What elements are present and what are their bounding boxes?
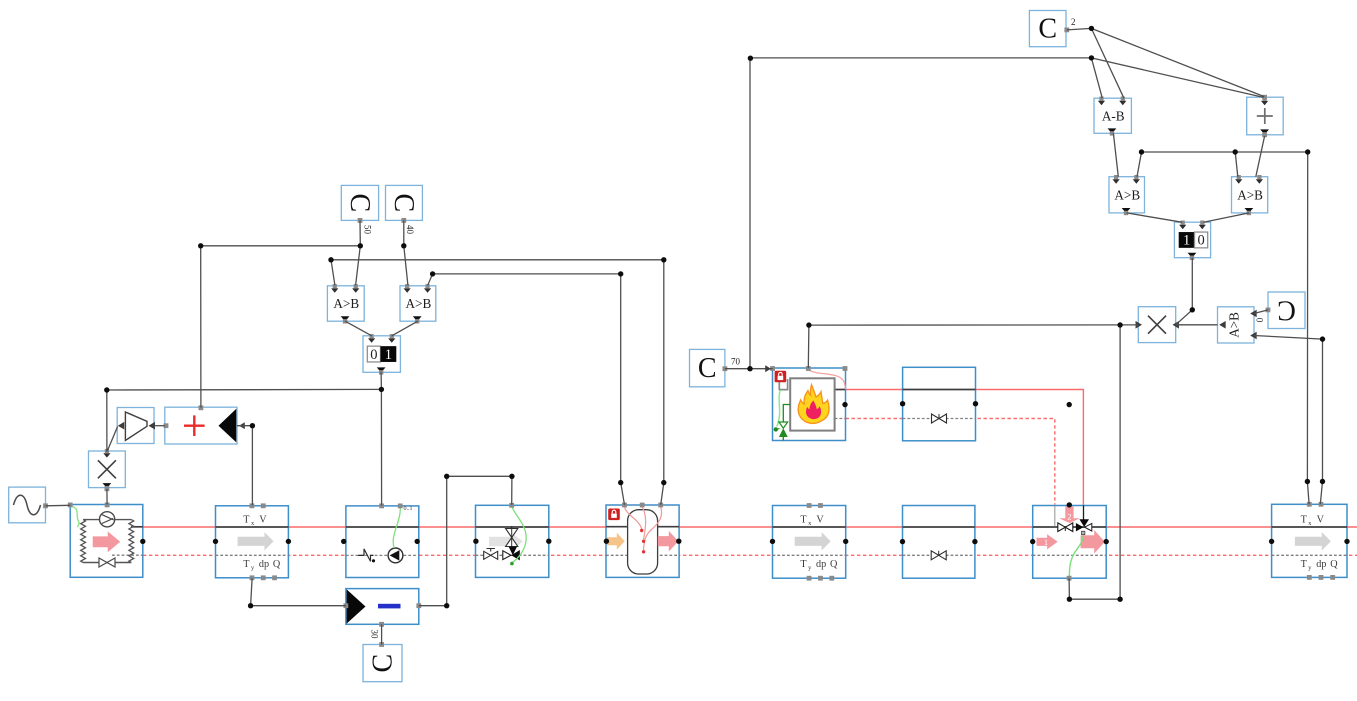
wire A>Brot out to multiplier2 (1176, 324, 1218, 326)
svg-text:dp: dp (1316, 559, 1326, 570)
svg-text:70: 70 (731, 357, 741, 367)
svg-text:T: T (243, 514, 250, 525)
pipe supply red solid main (143, 526, 1357, 528)
svg-text:A>B: A>B (1227, 312, 1242, 338)
svg-text:Q: Q (273, 559, 281, 570)
svg-text:C: C (698, 353, 717, 384)
svg-text:A>B: A>B (406, 296, 432, 311)
wire multiplier out to collector (106, 489, 108, 505)
pump block group (341, 504, 420, 578)
adder block + (red plus) (164, 405, 245, 444)
svg-text:V: V (1317, 514, 1325, 525)
svg-text:Q: Q (830, 559, 838, 570)
svg-text:2: 2 (1071, 17, 1076, 27)
svg-text:T: T (800, 559, 807, 570)
multiplier X2 (1138, 307, 1175, 343)
switch block 0/1 left (363, 334, 400, 375)
wire A>B1 out to switch (345, 321, 372, 336)
wire measurement1 Tx to adder input (237, 426, 252, 506)
svg-text:C: C (344, 194, 375, 213)
svg-text:C: C (388, 194, 419, 213)
multiplier X1 (pump speed) (89, 451, 126, 488)
wire C2 fanout (1067, 28, 1124, 98)
adder block + (gray) (1247, 95, 1284, 137)
svg-text:0: 0 (370, 347, 377, 363)
svg-text:2: 2 (1067, 511, 1071, 521)
wire plus out to A>B4 (1256, 136, 1265, 177)
constant C 70 (690, 349, 725, 386)
subtractor block - (blue minus) (344, 589, 422, 627)
wire C70 to boiler and logic (725, 368, 773, 370)
wire A>B2 out to switch (392, 321, 418, 336)
svg-text:dp: dp (259, 559, 269, 570)
pipe red solid boiler supply (846, 390, 1084, 506)
svg-text:C: C (1038, 14, 1057, 45)
wire boiler-line to A-B and plus (1091, 58, 1102, 98)
wire net A>B1.A to tank sensor top (331, 260, 664, 505)
svg-text:1: 1 (1183, 233, 1190, 249)
measurement block T,V / T,dp,Q (solar) (213, 503, 291, 580)
constant C 30 (363, 645, 402, 682)
svg-text:A>B: A>B (333, 296, 359, 311)
arrow into boiler (765, 365, 771, 372)
wire subtractor bottom to C30 (381, 624, 383, 644)
wire gain out to multiplier (108, 427, 118, 451)
svg-text:T: T (1301, 559, 1308, 570)
svg-text:0: 0 (1197, 233, 1204, 249)
constant C 50 (341, 185, 378, 220)
constant C 40 (386, 185, 423, 220)
svg-text:A>B: A>B (1114, 187, 1140, 202)
svg-text:0: 0 (1255, 317, 1265, 322)
svg-text:30: 30 (370, 630, 380, 640)
wire A-B out to A>B3 (1113, 133, 1118, 176)
wire C50 down to A>B1 (356, 220, 361, 285)
wire adder to gain (154, 425, 165, 427)
svg-text:T: T (243, 559, 250, 570)
wire measurement1 bottom to subtractor (251, 578, 346, 606)
pipe red dashed boiler return (846, 419, 1055, 505)
three-way valve block (solar loop) (473, 503, 551, 577)
svg-text:0..1: 0..1 (404, 506, 413, 512)
measurement block T,V / T,dp,Q (right) (1269, 502, 1350, 580)
wire net to adder top (201, 246, 361, 408)
wire switch2 out to multiplier2 (1176, 258, 1193, 325)
valve block (boiler supply) (900, 367, 978, 441)
valve block (return line) (900, 506, 978, 579)
three-way mixing valve block (heating circuit) (1030, 502, 1109, 580)
comparator A>B 3 (1109, 175, 1145, 215)
pipe return red dashed main (143, 554, 1357, 556)
svg-text:40: 40 (405, 225, 415, 235)
solar collector block (68, 503, 146, 578)
svg-text:50: 50 (363, 225, 373, 235)
storage tank block (604, 503, 682, 578)
gain block (triangle) (117, 408, 155, 444)
wire net y152 (1142, 152, 1310, 504)
comparator A>B rotated (1218, 307, 1257, 343)
svg-text:T: T (1301, 514, 1308, 525)
constant C 2 (1029, 11, 1066, 47)
svg-text:1: 1 (1044, 538, 1048, 547)
measurement block T,V / T,dp,Q (boiler circuit) (770, 503, 849, 580)
wire sine to collector (46, 504, 71, 507)
source block sine generator (9, 487, 48, 523)
comparator A>B 2 (400, 284, 436, 323)
comparator A>B 1 (327, 284, 364, 323)
wire A>B4 out to switch2 (1204, 213, 1250, 222)
svg-text:V: V (259, 514, 267, 525)
svg-text:dp: dp (816, 559, 826, 570)
wire subtractor out to valve1 (419, 476, 512, 605)
wire switch1 branch to multiplier (107, 389, 382, 452)
subtractor A-B (1094, 97, 1131, 136)
wire C0 to A>Brot (1254, 310, 1268, 314)
svg-text:A-B: A-B (1102, 108, 1125, 123)
comparator A>B 4 (1232, 175, 1268, 215)
svg-text:C: C (368, 654, 399, 673)
boiler block (flame) (770, 366, 848, 440)
svg-text:V: V (816, 514, 824, 525)
constant C 0 (1268, 292, 1305, 329)
wire net A>B2.B to tank sensor (428, 274, 625, 505)
wire boiler sensor up and right to multiplier2 (808, 325, 1138, 368)
wire mixing valve bottom to multiplier2 net (1069, 325, 1120, 599)
svg-text:1: 1 (385, 347, 392, 363)
wire right measurement V to A>Brot (1254, 336, 1323, 505)
svg-text:A>B: A>B (1237, 187, 1263, 202)
switch block 1/0 right (1174, 221, 1210, 261)
wire A>B3 out to switch2 (1127, 213, 1182, 222)
wire switch1 out to pump (380, 372, 383, 505)
svg-text:C: C (1277, 294, 1296, 325)
svg-text:T: T (800, 514, 807, 525)
wire C40 down to A>B2 (404, 220, 408, 285)
svg-text:Q: Q (1330, 559, 1338, 570)
